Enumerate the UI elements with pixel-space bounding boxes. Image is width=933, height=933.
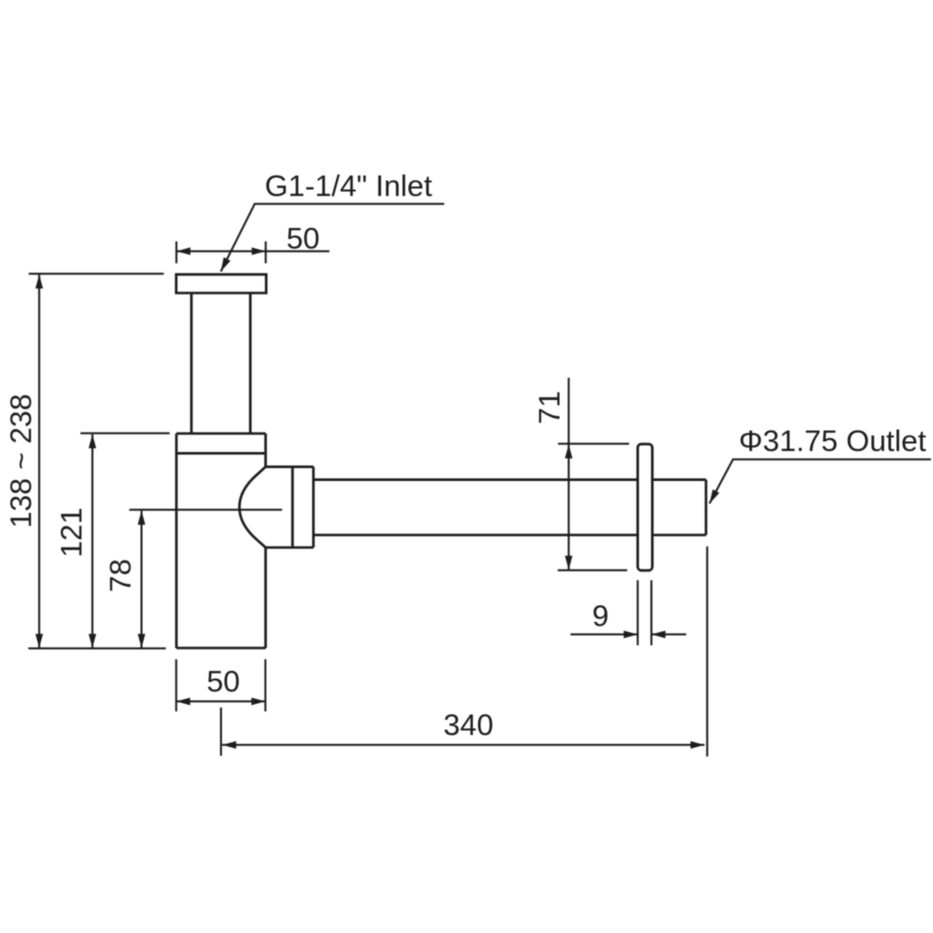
dim 138-238 down arrow [35, 634, 43, 648]
dim 9 left-pointing arrow [651, 631, 665, 639]
elbow nut [266, 467, 314, 548]
svg-text:78: 78 [105, 559, 138, 592]
dim 78 down arrow [138, 634, 146, 648]
dim 121 down arrow [89, 634, 97, 648]
inlet leader arrow [221, 257, 231, 271]
dim 340 line [222, 744, 704, 746]
dim 78 line [141, 511, 143, 648]
dim 50 bottom line [176, 700, 265, 702]
dim 138-238 line [38, 275, 40, 648]
dim 138-238 bottom extension [28, 647, 166, 649]
trap body [176, 434, 265, 649]
dim 121 top extension [81, 432, 170, 434]
dim 50 top line [176, 250, 329, 252]
dim 71 bottom extension [558, 569, 628, 571]
dim 9 left line [571, 633, 638, 635]
dim 9 left extension [637, 580, 639, 645]
dim 138-238 up arrow [35, 275, 43, 289]
dim 340 right arrow [691, 741, 705, 749]
dim 340 left extension [220, 708, 222, 756]
svg-text:121: 121 [56, 507, 89, 557]
dim 121 up arrow [89, 434, 97, 448]
outlet leader arrow [710, 489, 720, 503]
svg-text:340: 340 [443, 709, 493, 742]
dim 9 right-pointing arrow [624, 631, 638, 639]
dim 9 right extension [650, 580, 652, 645]
dim 50 top right tick [265, 241, 267, 263]
dim 50 bottom left tick [175, 659, 177, 711]
svg-text:50: 50 [286, 223, 319, 256]
dim 71 down arrow [565, 556, 573, 570]
outlet flange [638, 444, 653, 570]
outlet pipe [313, 480, 706, 535]
svg-text:Φ31.75 Outlet: Φ31.75 Outlet [739, 425, 927, 458]
svg-text:9: 9 [592, 600, 609, 633]
dim 71 top extension [558, 443, 629, 445]
dim 50 bottom right arrow [251, 698, 265, 706]
svg-text:G1-1/4" Inlet: G1-1/4" Inlet [265, 170, 433, 203]
dim 9 right line [651, 633, 686, 635]
svg-text:71: 71 [534, 391, 567, 424]
dim 50 bottom right tick [264, 659, 266, 711]
elbow bell [239, 467, 265, 548]
inlet vertical pipe [191, 293, 250, 434]
dim 50 bottom left arrow [176, 698, 190, 706]
dim 78 up arrow [138, 511, 146, 525]
pipe centerline / 78 extension line [129, 509, 282, 511]
dim 71 up arrow [565, 444, 573, 458]
dim 340 left arrow [222, 741, 236, 749]
dim 121 line [91, 434, 93, 648]
inlet flange [176, 274, 266, 293]
dim 50 top right arrow [252, 247, 266, 255]
dim 138-238 top extension [29, 273, 164, 275]
svg-text:50: 50 [207, 665, 240, 698]
dim 50 top left tick [175, 241, 177, 263]
outlet leader line [710, 459, 931, 503]
inlet leader line [221, 204, 444, 272]
dim 340 right extension [706, 546, 708, 756]
svg-text:138 ~ 238: 138 ~ 238 [5, 394, 38, 528]
dim 71 line [568, 378, 570, 570]
dim 50 top left arrow [176, 247, 190, 255]
